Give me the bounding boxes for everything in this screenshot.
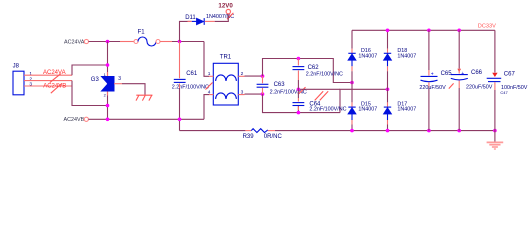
wire AC24VB rail	[88, 118, 204, 120]
node C65 top	[427, 29, 431, 33]
wire AC24VA to TR1 pin1	[204, 42, 209, 77]
capacitor C62	[293, 59, 344, 90]
svg-text:C47: C47	[500, 90, 508, 95]
wire G3 vertical line	[107, 42, 109, 120]
wire pin3 segment to C62/C64 stem	[298, 88, 340, 90]
J8 pin 3 wire	[24, 85, 72, 87]
svg-text:1: 1	[208, 71, 211, 77]
svg-text:DC33V: DC33V	[478, 24, 496, 30]
transformer TR1	[208, 54, 245, 105]
wire TR1 pin3	[245, 93, 263, 95]
wire DC- bottom rail	[180, 130, 495, 132]
svg-text:R39: R39	[243, 134, 255, 140]
svg-text:2.2nF/100V/NC: 2.2nF/100V/NC	[309, 106, 346, 112]
diode D15	[348, 102, 377, 131]
wire to power ground	[494, 131, 496, 142]
svg-text:F1: F1	[138, 29, 146, 35]
resistor R39	[243, 129, 283, 140]
node C65 bottom	[427, 129, 431, 133]
no-ERC slash over pin2 wire	[50, 74, 61, 83]
node C66 top	[457, 29, 461, 33]
wire pin3 jog up to right column	[340, 89, 388, 112]
node C62 top	[297, 57, 301, 61]
svg-text:2.2nF/100V/NC: 2.2nF/100V/NC	[172, 84, 209, 90]
wire left column mid	[351, 83, 353, 103]
diode D11	[185, 13, 234, 25]
node AC24VA / D11 / C61 junction	[178, 40, 182, 44]
svg-text:C67: C67	[504, 71, 516, 77]
wire secondary upper rail	[263, 59, 353, 83]
svg-text:1N4007: 1N4007	[397, 107, 416, 113]
fuse F1	[120, 29, 172, 46]
J8 pin 1 wire	[24, 74, 72, 76]
svg-text:C61: C61	[186, 71, 198, 77]
svg-text:3: 3	[241, 90, 244, 96]
svg-text:0R/NC: 0R/NC	[264, 134, 283, 140]
wire D11 branch up	[180, 21, 192, 41]
transient suppressor G3	[91, 72, 122, 98]
svg-text:1: 1	[29, 71, 32, 77]
wire pin3 net lower path	[263, 94, 341, 113]
wire DC+ top rail	[352, 29, 495, 31]
power port 12V0	[218, 2, 233, 13]
svg-text:C62: C62	[308, 65, 320, 71]
svg-text:AC24VA: AC24VA	[43, 70, 66, 76]
node AC24VA joins G3 line	[106, 63, 110, 67]
diode D16	[348, 30, 377, 82]
svg-text:AC24VA: AC24VA	[64, 39, 85, 45]
svg-text:1N4007: 1N4007	[397, 53, 416, 59]
svg-text:3: 3	[118, 76, 121, 82]
J8 pin 2 wire	[24, 80, 72, 82]
wire TR1 pin2	[245, 75, 263, 77]
wire pins2,3 to AC24VB net	[72, 81, 108, 106]
svg-text:AC24VB: AC24VB	[43, 84, 66, 90]
node pin2/C63/rail	[261, 74, 265, 78]
ground (earth) symbol	[136, 95, 153, 100]
capacitor C64	[293, 89, 347, 112]
node pin2 at left column	[350, 81, 354, 85]
svg-text:3: 3	[29, 82, 32, 88]
svg-text:2.2nF/100V/NC: 2.2nF/100V/NC	[270, 89, 307, 95]
wire F1 to node	[172, 41, 204, 43]
node pin3 at right column	[386, 88, 390, 92]
diode D18	[383, 30, 416, 89]
node C66 bottom	[457, 129, 461, 133]
node G3 line bottom	[106, 118, 110, 122]
capacitor C67	[487, 30, 528, 130]
node C67 bottom / ground	[493, 129, 497, 133]
svg-text:TR1: TR1	[220, 54, 232, 60]
no-ERC slash over pin3 wire	[51, 84, 62, 94]
diode D17	[383, 102, 416, 131]
svg-text:2: 2	[241, 71, 244, 77]
capacitor C66	[451, 30, 493, 130]
node pin3/C63	[261, 92, 265, 96]
connector J8	[13, 63, 33, 94]
node junction top of G3 line	[106, 40, 110, 44]
wire right column mid	[387, 89, 389, 102]
wire pin1 to AC24VA net	[72, 65, 108, 75]
power ground symbol	[487, 142, 504, 149]
wire AC24VA rail	[89, 41, 121, 43]
wire G3 pin3 to ground	[114, 83, 122, 85]
wire AC24VB to TR1 pin4	[204, 95, 209, 120]
node C61 bottom rail	[178, 118, 182, 122]
svg-text:4: 4	[208, 90, 211, 96]
node C62 bottom / C64 top	[297, 88, 301, 92]
svg-text:G3: G3	[91, 77, 100, 83]
node D15 bottom	[350, 129, 354, 133]
svg-text:C65: C65	[441, 71, 453, 77]
svg-text:12V0: 12V0	[218, 2, 233, 9]
svg-text:D11: D11	[185, 15, 196, 21]
node D17 bottom	[386, 129, 390, 133]
capacitor C61 branch	[179, 42, 181, 79]
node AC24VB joins G3 line	[106, 104, 110, 108]
node C64 bottom	[297, 111, 301, 115]
node D18 top	[386, 29, 390, 33]
svg-text:C66: C66	[471, 70, 483, 76]
svg-text:1N4007: 1N4007	[358, 107, 377, 113]
svg-text:J8: J8	[13, 63, 20, 69]
capacitor C65	[419, 30, 453, 130]
svg-text:2: 2	[29, 76, 32, 82]
wire D11 to 12V0 port	[215, 14, 229, 21]
svg-text:AC24VB: AC24VB	[64, 117, 85, 123]
svg-text:1N4007/NC: 1N4007/NC	[206, 14, 234, 20]
svg-text:C63: C63	[274, 82, 286, 88]
svg-text:2.2nF/100V/NC: 2.2nF/100V/NC	[306, 71, 343, 77]
svg-text:220uF/50V: 220uF/50V	[466, 84, 493, 90]
svg-text:220uF/50V: 220uF/50V	[419, 85, 446, 91]
capacitor C63	[257, 76, 307, 95]
svg-text:1N4007: 1N4007	[358, 53, 377, 59]
